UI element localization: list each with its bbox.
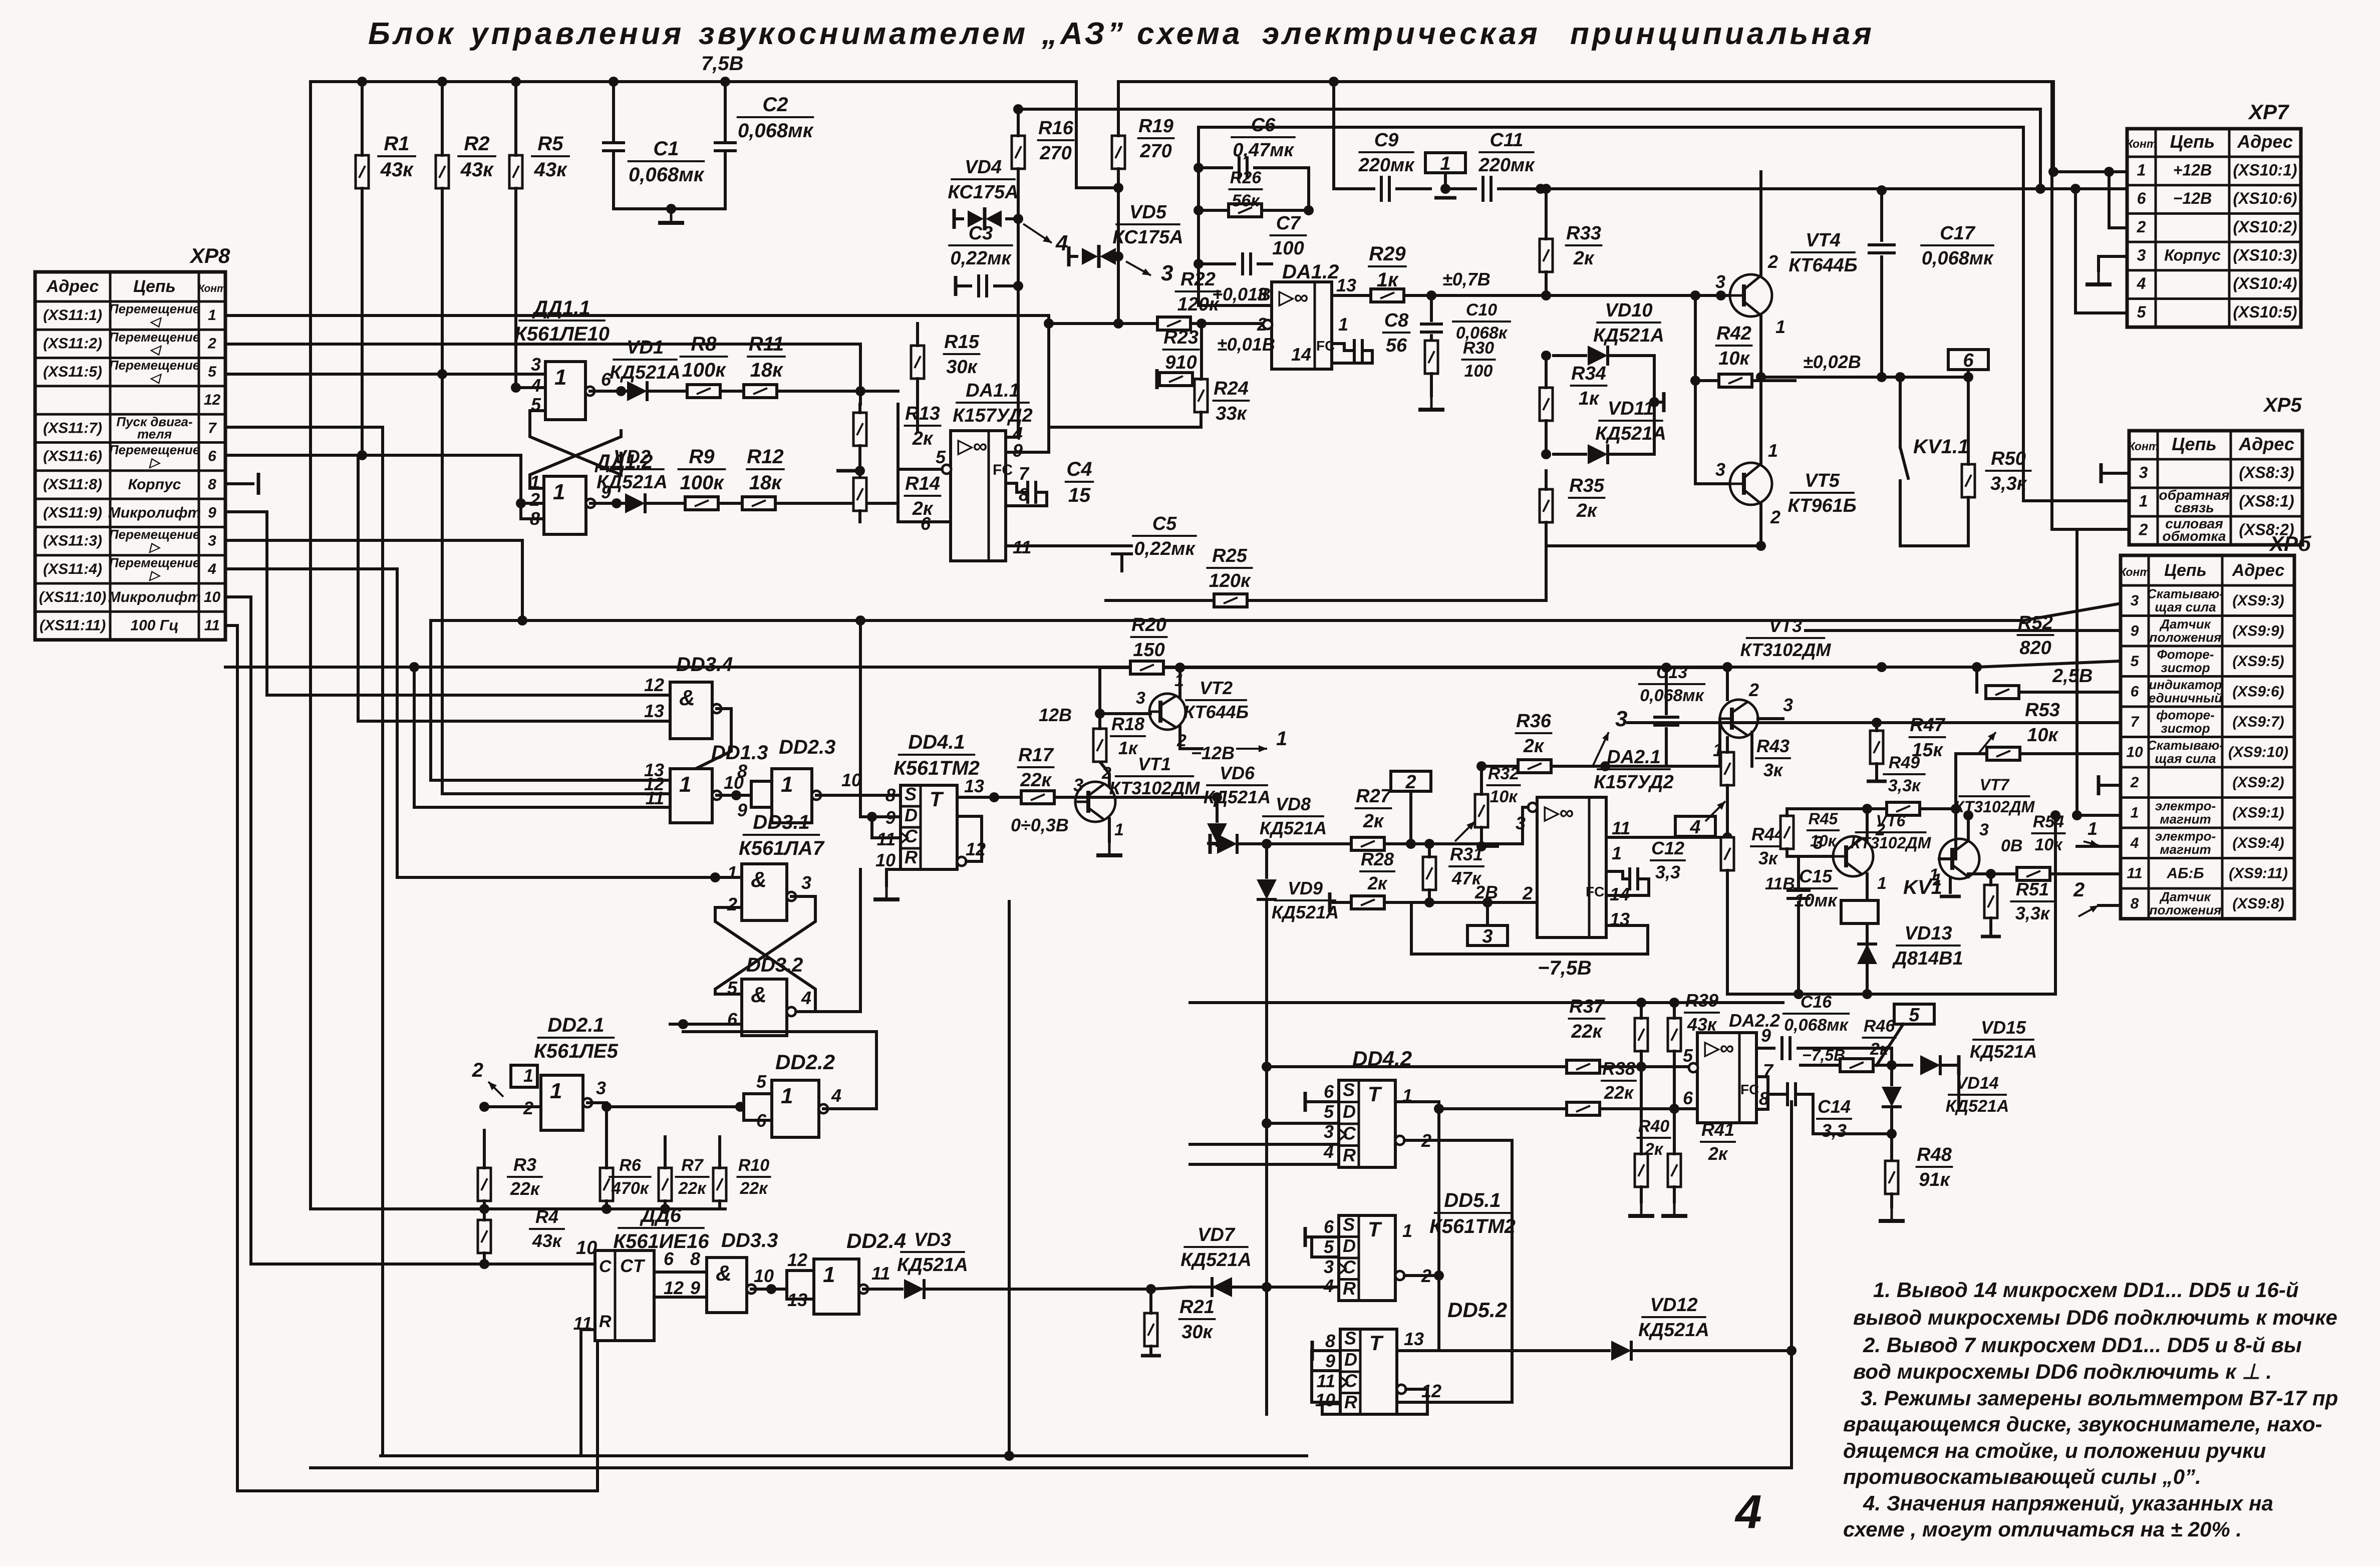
svg-text:C: C: [599, 1257, 612, 1276]
wire x2529 vertical: [1265, 1067, 1268, 1414]
svg-text:3: 3: [1783, 695, 1793, 715]
resistor R39 vertical: [1668, 1018, 1681, 1051]
diode VD15: [1920, 1055, 1940, 1075]
wire DD4.1 pin12 loop: [957, 816, 982, 861]
svg-text:9: 9: [1013, 440, 1023, 461]
wire DD4.2 pin1 out: [1395, 1102, 1439, 1109]
svg-text:КТ3102ДМ: КТ3102ДМ: [1851, 834, 1932, 852]
svg-text:56к: 56к: [1232, 191, 1260, 210]
counter DD6 K561IE16: [595, 1250, 654, 1341]
svg-text:R2: R2: [464, 133, 489, 155]
svg-text:22к: 22к: [678, 1179, 707, 1198]
svg-text:30к: 30к: [946, 357, 978, 378]
wire DD3.2 pin6 from bus: [670, 1023, 742, 1026]
connector table XP5: [2128, 431, 2302, 545]
svg-text:VD6: VD6: [1220, 763, 1255, 783]
svg-text:DD2.4: DD2.4: [846, 1229, 906, 1252]
svg-text:VT5: VT5: [1805, 470, 1840, 491]
wire R35 to R25 line: [1545, 546, 1548, 600]
diode VD9: [1265, 844, 1268, 877]
svg-text:R42: R42: [1716, 323, 1751, 344]
wire R42 to VT4 base node: [1694, 295, 1697, 381]
svg-text:2: 2: [2137, 218, 2146, 236]
wire XS11:1 Перемещение row 1: [225, 314, 1049, 317]
svg-text:0В: 0В: [2001, 836, 2022, 855]
svg-text:DA1.1: DA1.1: [966, 380, 1020, 401]
svg-text:магнит: магнит: [2160, 812, 2211, 827]
svg-text:DD5.1: DD5.1: [1444, 1189, 1501, 1211]
node box 5: [1894, 1004, 1934, 1026]
wire bottom long bus y2907: [381, 1454, 1307, 1457]
resistor R50 vertical: [1962, 464, 1975, 497]
wire DD1.1 output 6: [590, 390, 629, 393]
capacitor C17: [1880, 190, 1883, 240]
wire y1332 to XP6 row5: [1727, 666, 1977, 669]
svg-text:4: 4: [1689, 817, 1700, 838]
svg-text:220мк: 220мк: [1358, 155, 1415, 176]
svg-text:0,22мк: 0,22мк: [950, 248, 1012, 269]
svg-text:0,068мк: 0,068мк: [629, 164, 705, 186]
svg-text:1: 1: [2137, 161, 2146, 179]
svg-text:Скатываю-: Скатываю-: [2147, 738, 2224, 753]
wire y2130 line: [1267, 1065, 1693, 1068]
capacitor C6: [1199, 166, 1232, 169]
svg-text:10: 10: [841, 770, 861, 790]
svg-text:R41: R41: [1701, 1119, 1734, 1140]
svg-text:управления: управления: [469, 17, 684, 51]
svg-text:2к: 2к: [1576, 500, 1598, 521]
svg-text:R6: R6: [619, 1156, 642, 1175]
wire DD2.2 output loop: [683, 1032, 876, 1109]
resistor R16 vertical: [1012, 136, 1025, 169]
svg-text:электро-: электро-: [2155, 828, 2216, 843]
node box 4: [1675, 816, 1715, 838]
resistor R48 vertical: [1885, 1161, 1898, 1194]
wire VT4 collector to +rail: [1759, 172, 1762, 276]
svg-text:1: 1: [679, 772, 691, 797]
resistor R54: [2017, 867, 2050, 880]
svg-text:Адрес: Адрес: [2238, 434, 2294, 454]
logic gate DD3.4: [670, 682, 721, 739]
wire vertical x3577 C14 return: [1790, 1102, 1793, 1468]
svg-text:3: 3: [1136, 689, 1145, 708]
capacitor C15: [1797, 856, 1800, 886]
switch arrow 3 top: [1593, 732, 1609, 766]
svg-text:(XS11:3): (XS11:3): [43, 533, 102, 549]
svg-text:12: 12: [1421, 1381, 1441, 1401]
svg-text:3: 3: [2131, 592, 2139, 609]
svg-text:6: 6: [208, 448, 216, 465]
svg-text:3: 3: [801, 872, 811, 893]
wire bus jog at x2149: [1076, 82, 1118, 188]
capacitor C3: [954, 276, 958, 296]
wire DA2.2 pin9 to C16: [1756, 1047, 1774, 1050]
svg-text:R35: R35: [1569, 475, 1605, 496]
svg-text:R21: R21: [1179, 1297, 1215, 1318]
svg-text:Конт: Конт: [2119, 565, 2150, 578]
resistor R53: [1987, 747, 2020, 760]
resistor R47 vertical: [1870, 731, 1883, 764]
wire DD5.2 pin12 loop: [1322, 1389, 1427, 1414]
wire DD4.1 output 13 to R17: [957, 796, 1021, 799]
svg-text:DD5.2: DD5.2: [1447, 1298, 1507, 1322]
svg-text:Цепь: Цепь: [133, 277, 176, 296]
wire DD5.2 D loop: [1312, 1351, 1340, 1371]
svg-text:▷∞: ▷∞: [957, 435, 987, 457]
resistor R28: [1328, 892, 1332, 912]
svg-text:C12: C12: [1651, 838, 1684, 858]
svg-text:3,3: 3,3: [1655, 862, 1680, 882]
svg-text:9: 9: [1325, 1351, 1335, 1371]
svg-text:3: 3: [1615, 707, 1627, 731]
svg-text:3,3: 3,3: [1822, 1120, 1847, 1141]
svg-text:КТ3102ДМ: КТ3102ДМ: [1109, 778, 1201, 798]
svg-text:R24: R24: [1214, 378, 1249, 399]
svg-text:910: 910: [1165, 352, 1197, 373]
svg-text:R38: R38: [1602, 1058, 1635, 1079]
wire bus y218: [1018, 108, 2040, 111]
svg-text:3: 3: [2137, 246, 2146, 264]
resistor R3 vertical: [478, 1168, 491, 1201]
wire электромагнит row4: [2077, 845, 2121, 848]
svg-text:100 Гц: 100 Гц: [130, 617, 178, 634]
node box 3: [1467, 925, 1508, 947]
svg-text:−12В: −12В: [2173, 189, 2212, 207]
svg-text:±0,7В: ±0,7В: [1442, 269, 1491, 289]
svg-text:T: T: [930, 787, 944, 811]
svg-text:−12В: −12В: [1191, 743, 1235, 763]
svg-text:13: 13: [964, 776, 984, 796]
svg-text:C1: C1: [653, 138, 679, 160]
svg-text:(XS11:10): (XS11:10): [39, 589, 107, 605]
svg-text:1к: 1к: [1377, 269, 1399, 291]
resistor R13 vertical: [853, 413, 866, 446]
svg-text:Адрес: Адрес: [46, 277, 99, 296]
wire to KV1.1 and R50: [1882, 376, 1968, 379]
svg-text:1: 1: [523, 1065, 533, 1086]
wire XP7 pin2 loop: [2109, 172, 2127, 228]
wire VT2 emitter -12V arrow: [1180, 726, 1202, 749]
svg-text:C2: C2: [762, 94, 788, 116]
transistor VT5 KT961B: [1730, 463, 1772, 505]
wire XP7 pin5: [2075, 189, 2127, 313]
svg-text:R11: R11: [749, 333, 784, 355]
wire XS11:9 Микролифт row: [225, 512, 670, 695]
wire VT4 emitter down: [1761, 315, 1795, 377]
wire R16/VD4/C3 vertical node to DA1.1 pin4 area: [1006, 286, 1018, 437]
svg-text:(XS10:6): (XS10:6): [2233, 189, 2297, 207]
svg-text:2: 2: [207, 335, 216, 352]
svg-text:12: 12: [644, 675, 664, 695]
svg-text:электрическая: электрическая: [1262, 17, 1541, 51]
wire XS11:5 row 5: [225, 373, 545, 376]
wire DD2.1 output 3: [587, 1101, 607, 1104]
ground DD4.1 R pin: [886, 869, 901, 885]
svg-text:7,5В: 7,5В: [701, 53, 744, 75]
resistor R1: [356, 155, 369, 188]
svg-text:1к: 1к: [1118, 738, 1138, 758]
svg-text:470к: 470к: [611, 1179, 650, 1198]
svg-text:2: 2: [1405, 772, 1416, 793]
svg-text:связь: связь: [2174, 500, 2214, 515]
svg-text:13: 13: [787, 1290, 807, 1310]
svg-text:DD2.3: DD2.3: [779, 736, 835, 758]
svg-text:вод микросхемы DD6 подключи: вод микросхемы DD6 подключить к ⊥ .: [1853, 1360, 2272, 1383]
svg-text:&: &: [751, 983, 767, 1007]
svg-text:КТ3102ДМ: КТ3102ДМ: [1740, 640, 1832, 660]
svg-text:(XS9:5): (XS9:5): [2232, 653, 2284, 670]
svg-text:электро-: электро-: [2155, 798, 2216, 813]
resistor R24 vertical: [1195, 379, 1208, 412]
svg-text:VD5: VD5: [1129, 202, 1167, 223]
flip-flop DD5.1: [1338, 1214, 1395, 1301]
svg-text:(XS9:2): (XS9:2): [2232, 774, 2284, 791]
wire DD1.1 pin4 from R5: [516, 386, 545, 389]
svg-text:VD12: VD12: [1650, 1295, 1697, 1316]
diode VD6: [1204, 763, 1271, 807]
svg-text:R: R: [599, 1312, 612, 1331]
resistor R51 vertical: [1984, 885, 1997, 918]
resistor R52a body: [1986, 686, 2019, 699]
wire RS latch cross-coupling: [530, 411, 621, 475]
svg-text:CT: CT: [620, 1256, 646, 1276]
svg-text:8: 8: [208, 476, 216, 493]
op-amp DA1.2: [1272, 282, 1332, 369]
svg-text:(XS11:4): (XS11:4): [43, 561, 102, 577]
svg-text:D: D: [905, 805, 918, 825]
resistor R19 vertical: [1112, 136, 1125, 169]
diode VD14 vertical: [1890, 1065, 1893, 1085]
svg-text:Фоторе-: Фоторе-: [2157, 647, 2214, 662]
svg-text:КД521А: КД521А: [897, 1255, 968, 1276]
svg-text:43к: 43к: [460, 159, 494, 181]
svg-text:(XS9:4): (XS9:4): [2232, 835, 2284, 851]
wire -12V corner: [2039, 109, 2042, 189]
wire to XP5 pin2 силовая обмотка: [2052, 528, 2129, 531]
svg-text:3,3к: 3,3к: [2015, 903, 2050, 923]
svg-text:VD13: VD13: [1904, 923, 1952, 944]
svg-text:(XS10:3): (XS10:3): [2233, 246, 2297, 264]
logic gate DD2.3: [772, 769, 821, 823]
wire C9/C11 line: [1332, 82, 1335, 189]
wire XS11:10 Микролифт row: [225, 597, 484, 1264]
svg-text:Цепь: Цепь: [2172, 434, 2217, 454]
resistor R49: [1887, 802, 1920, 815]
svg-text:3: 3: [1715, 271, 1725, 292]
svg-text:R49: R49: [1889, 753, 1920, 772]
wire VT7 base: [1939, 811, 1956, 859]
svg-text:10к: 10к: [1490, 787, 1518, 806]
svg-text:1: 1: [1775, 317, 1786, 337]
svg-text:щая сила: щая сила: [2155, 599, 2216, 614]
connector table XP6: [2119, 555, 2294, 919]
svg-text:18к: 18к: [749, 472, 782, 494]
svg-text:C5: C5: [1152, 513, 1177, 534]
svg-text:R4: R4: [535, 1206, 558, 1227]
svg-text:2к: 2к: [912, 428, 934, 449]
svg-text:(XS9:3): (XS9:3): [2232, 592, 2284, 609]
svg-text:3к: 3к: [1763, 760, 1783, 780]
svg-text:R33: R33: [1566, 223, 1601, 244]
svg-text:R18: R18: [1111, 714, 1144, 734]
resistor R23: [1155, 369, 1159, 389]
svg-text:(XS9:1): (XS9:1): [2232, 804, 2284, 821]
svg-text:C4: C4: [1066, 458, 1092, 480]
resistor R37 vertical: [1635, 1018, 1648, 1051]
connector table XP8: [35, 272, 226, 640]
svg-text:магнит: магнит: [2160, 842, 2211, 857]
svg-text:3,3к: 3,3к: [1990, 473, 2027, 494]
wire diagonal from box 5 to R46 line: [1877, 1024, 1903, 1065]
wire bottom long bus y2931: [311, 1466, 1792, 1469]
logic gate DD2.4: [814, 1259, 868, 1314]
svg-text:4: 4: [1734, 1485, 1762, 1538]
wire bus y254 to XP5: [1199, 126, 2023, 129]
svg-text:Адрес: Адрес: [2232, 561, 2285, 580]
wire XS11:3 row 3: [225, 540, 522, 620]
svg-text:(XS9:11): (XS9:11): [2229, 865, 2288, 881]
svg-text:Микролифт: Микролифт: [108, 589, 201, 605]
svg-text:Блок: Блок: [368, 17, 456, 51]
svg-text:11: 11: [1612, 818, 1630, 838]
svg-text:2: 2: [1748, 680, 1759, 700]
svg-text:C9: C9: [1374, 130, 1399, 151]
wire DA2.1 + input from R27: [1432, 807, 1528, 844]
resistor R29: [1332, 294, 1373, 297]
svg-text:10: 10: [875, 850, 896, 870]
wire XS11:11 100 Гц row: [225, 625, 598, 1491]
wire VT6 collector: [1866, 809, 1869, 841]
wire VT1 emitter down: [1108, 819, 1111, 841]
wire C6 rail: [1199, 127, 1272, 305]
svg-text:2: 2: [472, 1059, 483, 1081]
wire S bar DD5.2: [1311, 1341, 1314, 1361]
resistor R42: [1719, 374, 1752, 387]
wire VT3 collector: [1726, 668, 1729, 700]
svg-text:4: 4: [1055, 231, 1068, 255]
svg-text:R16: R16: [1038, 118, 1074, 139]
svg-text:15: 15: [1068, 484, 1091, 506]
svg-text:10к: 10к: [2027, 725, 2058, 746]
svg-text:0,47мк: 0,47мк: [1233, 140, 1294, 161]
svg-text:R36: R36: [1516, 711, 1552, 732]
wire long bus y1239: [431, 619, 2023, 622]
wire DD6 outputs to DD3.3: [654, 1271, 707, 1274]
svg-text:4: 4: [530, 375, 541, 396]
svg-text:D: D: [1343, 1235, 1356, 1256]
svg-text:DD3.3: DD3.3: [721, 1229, 778, 1251]
svg-text:S: S: [1343, 1214, 1355, 1235]
resistor R33 vertical: [1540, 239, 1553, 272]
svg-text:(XS8:1): (XS8:1): [2239, 492, 2294, 510]
svg-text:К561ЛЕ5: К561ЛЕ5: [534, 1040, 618, 1062]
svg-text:4. Значения напряжений, указ: 4. Значения напряжений, указанных на: [1863, 1491, 2273, 1515]
svg-text:9: 9: [690, 1278, 700, 1298]
svg-text:R7: R7: [681, 1156, 704, 1175]
resistor R21 vertical: [1144, 1313, 1157, 1346]
svg-text:ДД6: ДД6: [640, 1204, 682, 1226]
svg-text:(XS10:1): (XS10:1): [2233, 161, 2297, 179]
svg-text:1: 1: [823, 1263, 835, 1287]
node box 2: [1391, 771, 1431, 793]
svg-text:R: R: [1344, 1392, 1357, 1412]
svg-text:(XS11:11): (XS11:11): [40, 617, 106, 634]
resistor R20: [1098, 668, 1101, 714]
svg-text:+12В: +12В: [2173, 161, 2212, 179]
svg-text:6: 6: [664, 1248, 674, 1269]
svg-text:КД521А: КД521А: [597, 472, 668, 493]
svg-text:R40: R40: [1638, 1117, 1669, 1136]
svg-text:КТ644Б: КТ644Б: [1183, 702, 1249, 722]
svg-text:Цепь: Цепь: [2170, 131, 2215, 152]
svg-text:T: T: [1369, 1331, 1384, 1355]
svg-text:7: 7: [208, 420, 217, 436]
svg-text:3: 3: [1324, 1257, 1334, 1277]
svg-text:2: 2: [1522, 883, 1533, 903]
svg-text:1: 1: [781, 772, 793, 797]
svg-text:1: 1: [554, 365, 566, 390]
svg-text:11: 11: [1317, 1371, 1335, 1391]
svg-text:противоскатывающей силы „0”.: противоскатывающей силы „0”.: [1843, 1465, 2201, 1488]
svg-text:22к: 22к: [1571, 1021, 1603, 1042]
svg-text:6: 6: [2131, 683, 2139, 700]
svg-text:91к: 91к: [1919, 1169, 1950, 1190]
ground at XP7 Корпус: [2099, 256, 2127, 270]
svg-text:3: 3: [1073, 775, 1083, 795]
svg-text:К157УД2: К157УД2: [1594, 772, 1674, 793]
svg-text:вывод микросхемы DD6 подключит: вывод микросхемы DD6 подключить к точке: [1853, 1306, 2337, 1329]
resistor R7 vertical: [659, 1168, 672, 1201]
wire R53 left to VT7 node: [1954, 754, 1957, 811]
op-amp DA2.2: [1697, 1033, 1756, 1123]
svg-text:13: 13: [644, 701, 664, 721]
svg-text:R37: R37: [1569, 996, 1605, 1017]
diode VD7: [1212, 1277, 1232, 1297]
svg-text:10: 10: [2126, 744, 2143, 760]
svg-text:5: 5: [2137, 303, 2147, 321]
svg-text:D: D: [1344, 1349, 1357, 1370]
resistor R52 820: [2017, 612, 2054, 659]
svg-text:C17: C17: [1940, 223, 1976, 244]
resistor R17: [1021, 791, 1054, 804]
svg-text:10: 10: [754, 1266, 774, 1286]
svg-text:4: 4: [2137, 274, 2146, 292]
svg-text:R15: R15: [944, 332, 980, 353]
svg-text:±0,02В: ±0,02В: [1803, 352, 1861, 372]
zener VD5 KC175A: [1067, 246, 1071, 266]
svg-text:10к: 10к: [2034, 835, 2063, 854]
wire long drop x4097: [2050, 82, 2053, 529]
svg-text:(XS9:6): (XS9:6): [2232, 683, 2284, 700]
ground VT7 emitter: [1949, 877, 1952, 892]
transistor VT6 KT3102DM: [1833, 836, 1873, 876]
svg-text:8: 8: [1325, 1331, 1335, 1351]
resistor R40 vertical: [1635, 1154, 1648, 1187]
svg-text:2: 2: [1767, 251, 1778, 272]
capacitor C9: [1381, 176, 1389, 202]
transistor VT7 KT3102DM: [1939, 839, 1979, 879]
wire pin8 stub: [1756, 1094, 1768, 1109]
svg-text:13: 13: [1336, 275, 1356, 295]
wire XS11:2 row 2: [225, 343, 860, 346]
svg-text:R34: R34: [1571, 363, 1606, 384]
node box 1 with ground: [1425, 153, 1465, 174]
svg-text:VD1: VD1: [627, 337, 664, 358]
svg-text:(XS11:1): (XS11:1): [43, 307, 102, 324]
svg-text:▷: ▷: [149, 567, 161, 582]
wire S input bar DD5.1: [1304, 1227, 1307, 1247]
svg-text:ХР7: ХР7: [2248, 100, 2289, 124]
